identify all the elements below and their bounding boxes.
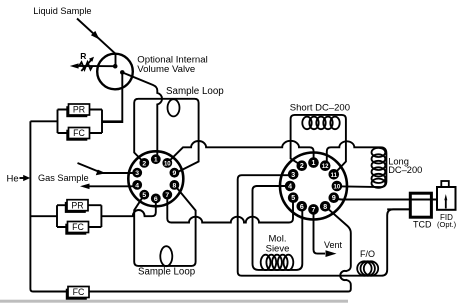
svg-text:He: He xyxy=(7,174,19,185)
svg-text:Volume Valve: Volume Valve xyxy=(137,64,195,75)
svg-text:Sample Loop: Sample Loop xyxy=(138,267,195,278)
svg-text:8: 8 xyxy=(323,204,327,211)
svg-text:3: 3 xyxy=(135,170,139,177)
svg-text:6: 6 xyxy=(300,204,304,211)
svg-text:1: 1 xyxy=(154,157,158,164)
svg-text:2: 2 xyxy=(300,163,304,170)
svg-text:Liquid Sample: Liquid Sample xyxy=(33,6,91,16)
svg-text:4: 4 xyxy=(135,182,139,189)
svg-text:11: 11 xyxy=(331,173,338,179)
svg-text:FC: FC xyxy=(73,128,85,138)
svg-text:Vent: Vent xyxy=(324,240,343,250)
svg-text:5: 5 xyxy=(291,195,295,202)
svg-text:Sample Loop: Sample Loop xyxy=(166,86,224,97)
svg-text:3: 3 xyxy=(291,172,295,179)
svg-text:5: 5 xyxy=(142,192,146,199)
svg-text:1: 1 xyxy=(312,160,316,167)
svg-text:2: 2 xyxy=(142,160,146,167)
svg-text:PR: PR xyxy=(71,200,83,210)
svg-text:Sieve: Sieve xyxy=(266,244,290,255)
svg-text:8: 8 xyxy=(173,182,177,189)
svg-text:DC–200: DC–200 xyxy=(388,165,422,175)
svg-text:10: 10 xyxy=(164,161,171,167)
svg-text:4: 4 xyxy=(288,184,292,191)
svg-text:12: 12 xyxy=(322,164,329,170)
svg-text:9: 9 xyxy=(173,170,177,177)
svg-text:FC: FC xyxy=(72,222,84,232)
svg-text:10: 10 xyxy=(334,185,341,191)
svg-text:FC: FC xyxy=(73,287,85,297)
svg-text:TCD: TCD xyxy=(413,219,432,229)
svg-text:R: R xyxy=(80,51,86,61)
svg-text:7: 7 xyxy=(165,192,169,199)
svg-text:(Opt.): (Opt.) xyxy=(437,220,457,229)
svg-text:PR: PR xyxy=(73,105,85,115)
svg-text:Gas Sample: Gas Sample xyxy=(38,173,89,183)
svg-text:F/O: F/O xyxy=(360,249,375,259)
svg-text:9: 9 xyxy=(332,195,336,202)
svg-text:7: 7 xyxy=(312,207,316,214)
svg-text:Short DC–200: Short DC–200 xyxy=(290,103,350,114)
svg-text:6: 6 xyxy=(154,196,158,203)
